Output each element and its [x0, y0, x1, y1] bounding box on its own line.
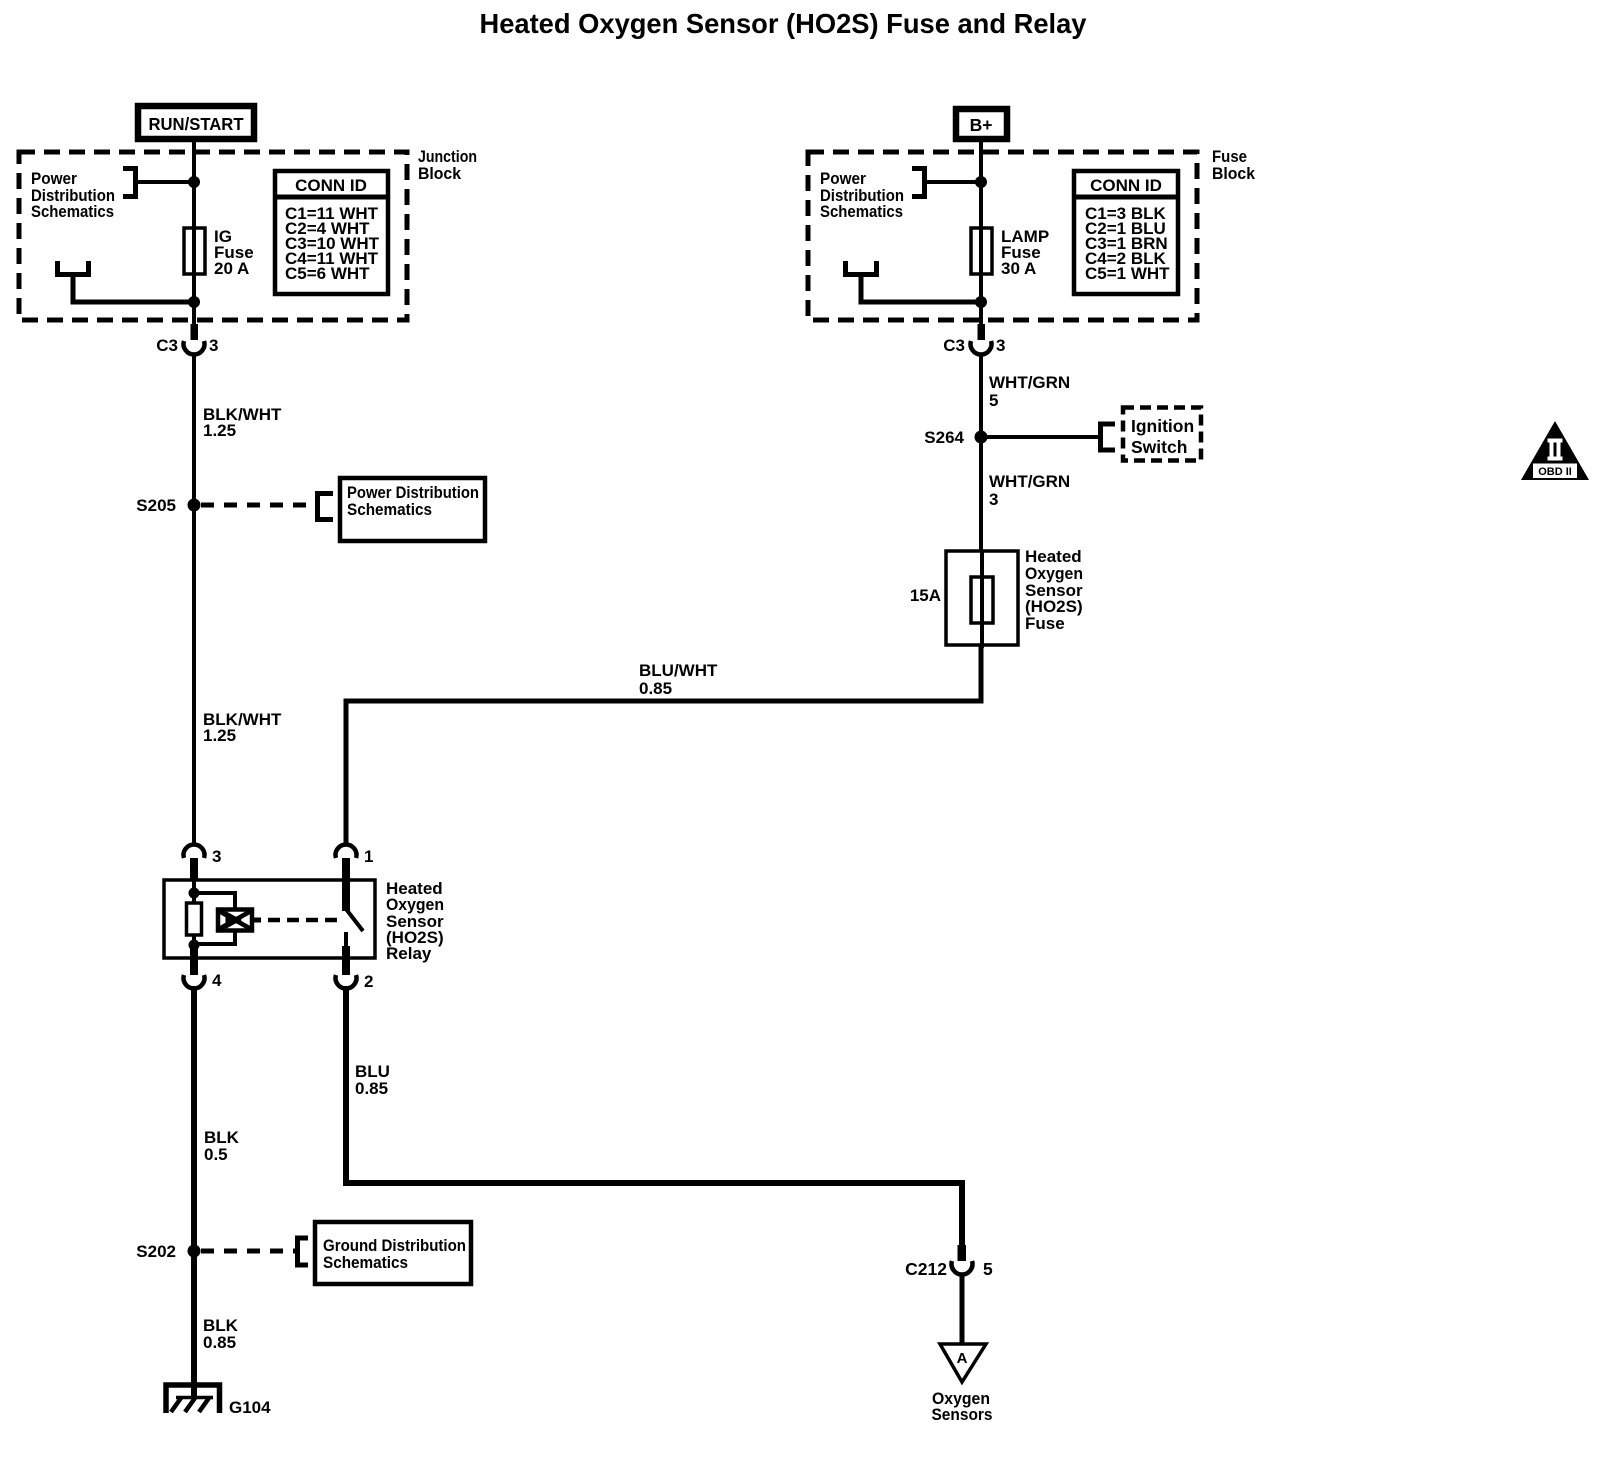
svg-text:20 A: 20 A — [214, 259, 249, 278]
bracket to ground distribution box — [298, 1238, 309, 1265]
junction dot — [975, 296, 987, 308]
relay coil wire — [192, 881, 196, 958]
label BLU/WHT 0.85 — [639, 661, 718, 698]
relay pin 3 connector — [184, 844, 222, 881]
dashed ref line S202 — [201, 1249, 296, 1254]
svg-text:OBD II: OBD II — [1538, 466, 1572, 478]
lower ref bracket (junction block) — [58, 261, 89, 275]
CONN ID table (junction block) — [275, 171, 388, 294]
wire S264 to HO2S fuse — [979, 437, 983, 552]
wire pin 4 to S202 — [191, 986, 197, 1251]
label BLK/WHT 1.25 (lower) — [203, 710, 282, 745]
svg-text:Schematics: Schematics — [31, 202, 114, 221]
splice S202 — [188, 1245, 201, 1258]
OBD II marker — [1521, 421, 1589, 480]
svg-text:1.25: 1.25 — [203, 726, 236, 745]
svg-text:RUN/START: RUN/START — [149, 114, 244, 134]
bracket to power distribution ref (fuse block) — [912, 169, 925, 197]
svg-text:S205: S205 — [136, 496, 176, 515]
dashed ref line S205 — [201, 503, 314, 508]
label BLK 0.5 — [204, 1128, 240, 1164]
svg-text:0.5: 0.5 — [204, 1145, 228, 1164]
svg-text:WHT/GRN: WHT/GRN — [989, 472, 1070, 491]
relay switch blade — [346, 909, 363, 931]
label WHT/GRN 5 — [989, 373, 1070, 410]
svg-text:2: 2 — [364, 972, 373, 991]
bracket to ignition switch — [1101, 424, 1116, 450]
svg-text:Switch: Switch — [1131, 437, 1187, 457]
svg-text:B+: B+ — [970, 115, 993, 135]
wire pin 2 to C212 — [346, 986, 962, 1246]
fuse element 15A — [971, 577, 993, 623]
ground G104 — [166, 1385, 271, 1417]
svg-text:Fuse: Fuse — [1025, 614, 1065, 633]
power distribution schematics ref text (fuse block) — [820, 169, 904, 221]
splice S205 — [188, 499, 201, 512]
ground distribution schematics box — [315, 1222, 471, 1284]
HO2S fuse box — [946, 551, 1018, 645]
svg-text:C212: C212 — [905, 1259, 947, 1279]
junction block label — [418, 147, 477, 183]
svg-text:Relay: Relay — [386, 944, 432, 963]
wire C3 to S264 — [979, 354, 983, 437]
fuse block label — [1212, 147, 1256, 183]
dashed actuator link — [268, 918, 338, 923]
wire S205 to relay pin 3 — [192, 505, 196, 846]
svg-text:Block: Block — [418, 164, 462, 183]
solenoid loop wire bottom — [192, 929, 235, 944]
svg-text:S202: S202 — [136, 1242, 176, 1261]
svg-text:Schematics: Schematics — [820, 202, 903, 221]
svg-text:1: 1 — [364, 847, 373, 866]
label BLU 0.85 — [355, 1062, 390, 1098]
svg-text:G104: G104 — [229, 1398, 271, 1417]
svg-text:Block: Block — [1212, 164, 1256, 183]
junction dot — [188, 176, 200, 188]
label Oxygen Sensors — [932, 1389, 993, 1424]
bracket to power distribution ref (junction block) — [123, 169, 136, 197]
svg-text:15A: 15A — [910, 586, 941, 605]
svg-text:0.85: 0.85 — [203, 1333, 236, 1352]
svg-text:4: 4 — [212, 971, 222, 990]
junction block dashed border — [19, 152, 407, 320]
svg-text:CONN ID: CONN ID — [295, 176, 367, 195]
svg-text:C5=6 WHT: C5=6 WHT — [285, 264, 370, 283]
svg-text:5: 5 — [989, 391, 998, 410]
power tag RUN/START — [138, 106, 254, 139]
svg-text:BLU/WHT: BLU/WHT — [639, 661, 718, 680]
svg-text:CONN ID: CONN ID — [1090, 176, 1162, 195]
relay pin 1 connector — [336, 844, 374, 911]
wire bracket to bus — [135, 180, 194, 184]
lower ref bracket (fuse block) — [846, 261, 877, 275]
connector C3 pin 3 (right) — [943, 324, 1005, 355]
power distribution schematics box — [340, 478, 485, 541]
svg-text:Sensors: Sensors — [932, 1405, 993, 1424]
label WHT/GRN 3 — [989, 472, 1070, 509]
junction dot (coil top) — [189, 888, 200, 899]
relay pin 2 connector — [336, 946, 374, 991]
wire HO2S fuse to relay pin 1 — [346, 645, 981, 846]
bracket to power distribution box — [318, 494, 334, 520]
svg-text:C3: C3 — [943, 336, 965, 355]
label BLK 0.85 — [203, 1316, 239, 1352]
connector C3 pin 3 (left) — [156, 324, 218, 355]
svg-text:0.85: 0.85 — [639, 679, 672, 698]
svg-text:C3: C3 — [156, 336, 178, 355]
svg-text:3: 3 — [209, 336, 218, 355]
wire lower bracket to bus — [73, 274, 194, 302]
svg-text:Schematics: Schematics — [347, 500, 432, 519]
wire RUN/START to junction block bus — [192, 142, 196, 330]
svg-text:Ignition: Ignition — [1131, 416, 1194, 436]
solenoid loop wire top — [192, 893, 235, 911]
label IG Fuse 20 A — [214, 227, 254, 278]
junction dot — [188, 296, 200, 308]
svg-text:WHT/GRN: WHT/GRN — [989, 373, 1070, 392]
wire S202 to ground — [191, 1251, 197, 1397]
junction dot (coil bottom) — [189, 940, 200, 951]
svg-text:3: 3 — [996, 336, 1005, 355]
wire C212 to oxygen sensors — [960, 1274, 965, 1344]
splice S264 — [975, 431, 988, 444]
fuse IG 20A — [184, 228, 205, 274]
label HO2S fuse — [1025, 547, 1083, 633]
junction dot — [975, 176, 987, 188]
svg-text:C5=1 WHT: C5=1 WHT — [1085, 264, 1170, 283]
relay label — [386, 879, 444, 963]
power distribution schematics ref text (junction block) — [31, 169, 115, 221]
CONN ID table (fuse block) — [1074, 171, 1178, 294]
relay coil resistor — [187, 903, 202, 935]
svg-text:3: 3 — [989, 490, 998, 509]
svg-text:30 A: 30 A — [1001, 259, 1036, 278]
off-page arrow A (oxygen sensors) — [940, 1344, 986, 1382]
svg-text:1.25: 1.25 — [203, 421, 236, 440]
solenoid X box — [218, 910, 261, 931]
svg-text:3: 3 — [212, 847, 221, 866]
svg-text:0.85: 0.85 — [355, 1079, 388, 1098]
svg-text:5: 5 — [983, 1259, 993, 1279]
wire through fuse — [980, 551, 984, 648]
connector C212 pin 5 — [905, 1245, 993, 1279]
fuse block dashed border — [808, 152, 1197, 320]
wire S264 to ignition switch bracket — [981, 435, 1099, 439]
svg-text:A: A — [957, 1350, 968, 1367]
relay pin 4 connector — [184, 946, 222, 990]
wire lower bracket to bus — [861, 274, 981, 302]
label LAMP Fuse 30 A — [1001, 227, 1049, 278]
power tag B+ — [956, 109, 1007, 139]
ignition switch dashed box — [1123, 408, 1201, 461]
wire C3 to S205 — [192, 354, 196, 505]
relay switch contact — [344, 932, 348, 947]
wire bracket to bus — [924, 180, 981, 184]
fuse LAMP 30A — [971, 228, 992, 274]
svg-text:S264: S264 — [924, 428, 964, 447]
label BLK/WHT 1.25 — [203, 405, 282, 440]
svg-text:Heated Oxygen Sensor (HO2S) Fu: Heated Oxygen Sensor (HO2S) Fuse and Rel… — [480, 8, 1087, 39]
svg-text:Schematics: Schematics — [323, 1253, 408, 1272]
relay box — [164, 880, 375, 958]
wire B+ to fuse block bus — [979, 142, 983, 330]
